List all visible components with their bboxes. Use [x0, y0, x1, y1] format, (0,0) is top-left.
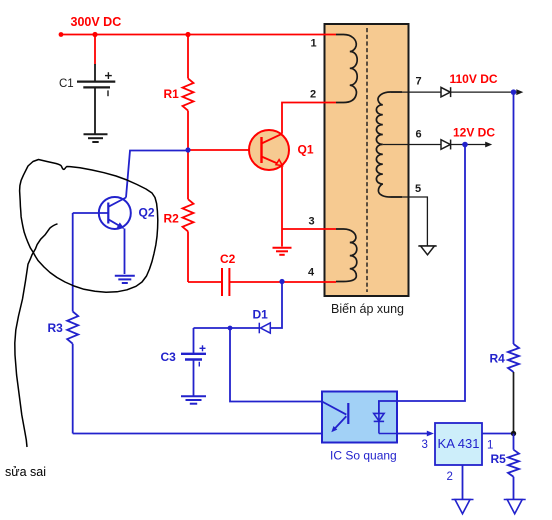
- wire: pin 6 to diode: [383, 144, 441, 146]
- node: divider junction dot (black): [511, 431, 516, 436]
- wire: pin4 node down to D1: [271, 282, 282, 329]
- transistor Q1: [249, 130, 289, 170]
- svg-text:1: 1: [487, 440, 493, 452]
- wire: Q2 collector to base node: [126, 151, 188, 198]
- wire: 300V DC top rail: [61, 34, 336, 36]
- wire: 12V line down to opto LED: [379, 145, 465, 414]
- opto LED: [374, 413, 397, 433]
- svg-text:3: 3: [309, 216, 315, 228]
- wire: R3 to opto emitter pin: [73, 433, 322, 435]
- svg-text:R4: R4: [490, 352, 506, 366]
- svg-text:IC So quang: IC So quang: [330, 449, 397, 463]
- ground (KA431 pin 2, open triangle blue): [452, 500, 474, 514]
- node: pin4 junction dot (blue): [279, 279, 284, 284]
- transformer body T1: [325, 24, 409, 296]
- resistor R5: [508, 434, 519, 500]
- node: rail left endpoint dot: [59, 32, 64, 37]
- svg-text:D1: D1: [253, 308, 269, 322]
- node: base junction dot (blue): [185, 147, 190, 152]
- freehand loop around Q2: [20, 160, 158, 293]
- svg-text:300V DC: 300V DC: [71, 15, 122, 29]
- resistor R1: [183, 35, 194, 151]
- svg-text:6: 6: [416, 129, 422, 141]
- node: D1-C3 junction dot: [228, 326, 233, 331]
- ground (C1): [84, 134, 108, 142]
- arrow: into KA431 pin 3: [427, 431, 434, 437]
- svg-text:4: 4: [308, 267, 315, 279]
- arrow: 110V output: [516, 89, 523, 95]
- wire: node down to C3: [193, 328, 195, 353]
- wire: C3 to ground: [193, 360, 195, 397]
- svg-text:C3: C3: [161, 350, 177, 364]
- svg-text:sửa sai: sửa sai: [5, 465, 46, 479]
- node: rail-C1 junction dot: [92, 32, 97, 37]
- wire: C1 to ground: [94, 87, 96, 134]
- diode D110: [441, 87, 451, 97]
- IC KA431 box: [435, 423, 482, 465]
- node: 110V junction dot (blue): [511, 89, 517, 95]
- resistor R3: [67, 213, 78, 434]
- opto phototransistor: [322, 402, 348, 433]
- wire: Q1 emitter down: [281, 167, 283, 247]
- capacitor C1: [77, 72, 115, 96]
- capacitor C2: [222, 268, 229, 296]
- svg-text:C1: C1: [59, 78, 74, 90]
- transistor Q2: [99, 197, 131, 229]
- resistor R2: [183, 150, 194, 282]
- svg-text:R5: R5: [491, 452, 507, 466]
- resistor R4: [508, 344, 519, 372]
- wire: diode to 12V arrow: [451, 144, 486, 146]
- transformer winding primary 3-4: [336, 229, 357, 282]
- wire: Q1 base: [188, 149, 262, 151]
- ground (pin 5, open triangle): [418, 246, 436, 255]
- svg-text:Biến áp xung: Biến áp xung: [331, 302, 404, 316]
- wire: R4 to divider node (black): [513, 372, 515, 434]
- wire: D1 to C3 node: [194, 327, 260, 329]
- wire: KA431 pin 1 to divider node: [482, 433, 514, 435]
- svg-text:2: 2: [310, 89, 316, 101]
- wire: Q1 collector to pin 2: [282, 103, 336, 134]
- transformer core dashed line: [366, 28, 368, 292]
- freehand stroke (long curve to sua sai): [15, 224, 58, 447]
- diode D12: [441, 140, 451, 150]
- wire: emitter to pin 3: [282, 228, 336, 230]
- wire: opto output to KA431 with arrow: [397, 433, 428, 435]
- svg-text:Q2: Q2: [139, 206, 155, 220]
- svg-text:110V DC: 110V DC: [450, 72, 498, 86]
- svg-text:12V DC: 12V DC: [453, 126, 495, 140]
- wire: C1 top (red part): [94, 35, 96, 65]
- svg-text:5: 5: [415, 183, 421, 195]
- wire: Q2 base: [73, 212, 109, 214]
- opto-isolator U1 box: [322, 392, 397, 443]
- wire: C1 top (black part): [94, 64, 96, 82]
- svg-text:Q1: Q1: [298, 143, 314, 157]
- svg-text:2: 2: [447, 471, 453, 483]
- transformer winding primary 1-2: [336, 35, 357, 103]
- wire: Q2 emitter down: [124, 229, 126, 275]
- svg-text:3: 3: [422, 439, 428, 451]
- arrow: 12V output: [485, 142, 492, 148]
- wire: 110V node down to R4: [513, 92, 515, 344]
- wire: R2 bottom to C2: [188, 281, 222, 283]
- svg-text:KA 431: KA 431: [438, 436, 480, 451]
- wire: D1 node to opto collector pin: [230, 328, 322, 402]
- capacitor C3: [181, 345, 206, 366]
- node: 12V junction dot (blue): [462, 142, 468, 148]
- svg-text:R1: R1: [164, 87, 180, 101]
- svg-text:C2: C2: [220, 252, 236, 266]
- wire: KA431 pin 2 down: [462, 465, 464, 500]
- wire: diode to 110V arrow: [451, 91, 517, 93]
- transformer winding secondary 7-6-5: [376, 92, 402, 197]
- wire: pin 5 to ground: [391, 197, 427, 246]
- diode D1: [259, 323, 270, 334]
- svg-text:R2: R2: [164, 212, 180, 226]
- ground (Q2, blue): [115, 276, 135, 283]
- ground (R5, open triangle blue): [504, 500, 526, 514]
- node: rail-R1 junction dot: [185, 32, 190, 37]
- svg-text:R3: R3: [48, 321, 64, 335]
- wire: C2 to pin 4: [229, 281, 336, 283]
- svg-text:1: 1: [311, 38, 317, 50]
- ground (C3, blue): [181, 396, 206, 403]
- ground (Q1 emitter, red): [273, 248, 292, 255]
- svg-text:7: 7: [416, 76, 422, 88]
- wire: pin 7 to diode: [391, 91, 441, 93]
